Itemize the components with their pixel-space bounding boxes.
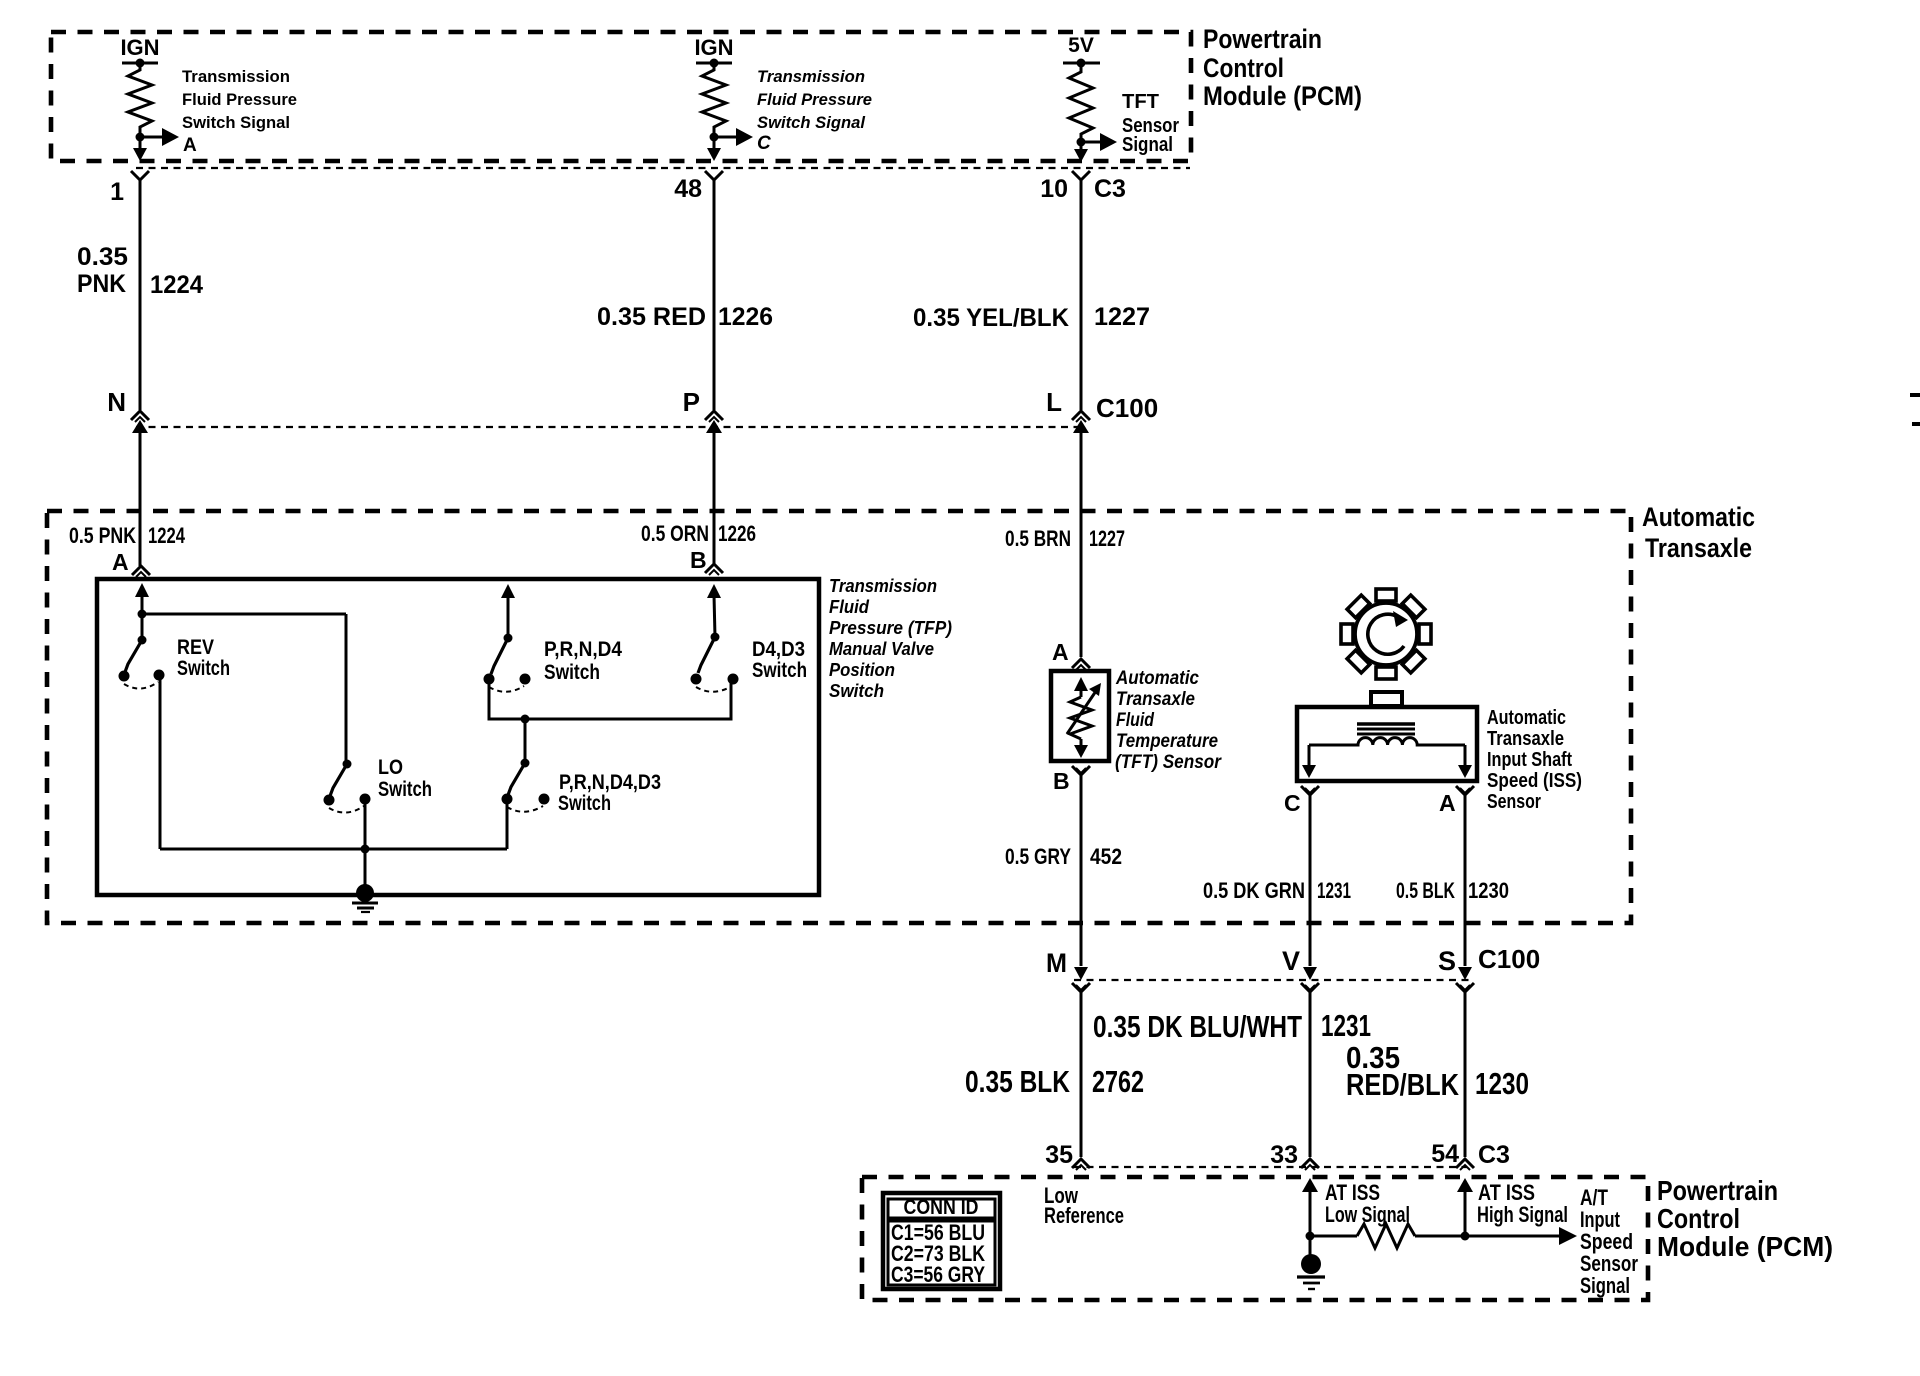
PCM bottom module box	[862, 1177, 1648, 1300]
svg-text:RED/BLK: RED/BLK	[1346, 1067, 1459, 1102]
TFT internal top arrow	[1074, 677, 1088, 697]
pin letter A (PCM internal)	[183, 135, 197, 156]
TFP manual valve position switch box	[97, 579, 819, 895]
wire TFT pull-up to connector, arrow down	[1074, 142, 1088, 162]
wire 1227 C100 L to TFT sensor A	[1080, 448, 1083, 657]
svg-text:1231: 1231	[1317, 878, 1351, 903]
svg-text:Control: Control	[1657, 1203, 1740, 1234]
connector C100 dashed interface line	[136, 426, 1081, 428]
wire resistor C to connector, arrow down	[707, 137, 721, 161]
svg-text:Module (PCM): Module (PCM)	[1657, 1231, 1833, 1262]
TFP switch label (right of box, italic)	[829, 576, 952, 701]
svg-text:1226: 1226	[718, 303, 773, 331]
svg-text:A: A	[1052, 639, 1069, 665]
ISS pickup coil winding	[1309, 738, 1465, 745]
connector C100 terminal L	[1046, 387, 1090, 448]
svg-text:Transaxle: Transaxle	[1645, 533, 1752, 563]
svg-text:0.5 ORN: 0.5 ORN	[641, 521, 709, 546]
svg-text:Switch: Switch	[829, 681, 884, 701]
label AT ISS High Signal	[1477, 1180, 1568, 1227]
connector terminal pin 1	[110, 171, 149, 206]
ISS coil lead C with down arrow	[1302, 745, 1316, 778]
svg-text:V: V	[1282, 946, 1300, 976]
svg-text:C3: C3	[1478, 1141, 1510, 1169]
svg-text:C100: C100	[1478, 944, 1540, 974]
P,R,N,D4 switch label	[544, 638, 622, 684]
label Low Reference	[1044, 1183, 1124, 1228]
svg-text:(TFT) Sensor: (TFT) Sensor	[1115, 752, 1222, 773]
PCM title top right	[1203, 24, 1362, 111]
svg-text:Manual Valve: Manual Valve	[829, 639, 934, 659]
TFT variable arrow diagonal	[1067, 683, 1101, 734]
svg-text:Signal: Signal	[1122, 134, 1173, 156]
connector C100 terminal N	[107, 387, 149, 448]
REV switch	[119, 636, 165, 689]
connector terminal B below TFT sensor	[1072, 766, 1090, 790]
wire label 0.35 RED/BLK 1230	[1346, 1040, 1529, 1102]
signal tap arrow C	[714, 128, 753, 146]
wire label 0.35 DK BLU/WHT 1231	[1093, 1008, 1371, 1044]
pin letter A at ISS	[1439, 790, 1456, 816]
REV switch pivot wire	[141, 614, 144, 640]
pin letter A at TFP	[112, 549, 129, 575]
svg-text:CONN ID: CONN ID	[904, 1196, 979, 1219]
wire PRND4D3 left contact down to rail	[506, 803, 509, 849]
svg-text:REV: REV	[177, 636, 214, 659]
svg-text:Pressure (TFP): Pressure (TFP)	[829, 618, 952, 638]
svg-text:1227: 1227	[1094, 303, 1150, 331]
wire REV contact down to rail	[159, 678, 162, 849]
wire 1227 PCM pin 10 to C100 L	[1080, 192, 1083, 410]
5V net label	[1068, 34, 1094, 57]
ground (PCM low reference)	[1297, 1254, 1325, 1289]
svg-text:A: A	[183, 135, 197, 156]
PCM top module box (Powertrain Control Module)	[51, 32, 1191, 161]
svg-text:D4,D3: D4,D3	[752, 638, 805, 661]
svg-text:Automatic: Automatic	[1642, 502, 1755, 532]
wire 1224 PCM pin 1 to C100 N	[139, 192, 142, 410]
svg-text:Automatic: Automatic	[1487, 707, 1566, 729]
resistor (TFP switch signal pull-up A)	[128, 63, 152, 137]
svg-text:33: 33	[1270, 1141, 1298, 1169]
LO switch label	[378, 756, 432, 801]
connector terminal A into TFP box	[132, 566, 150, 577]
svg-text:A: A	[112, 549, 129, 575]
svg-text:35: 35	[1045, 1141, 1073, 1169]
wire 1230 C100 S to PCM pin 54	[1464, 1006, 1467, 1157]
wire label 0.5 GRY 452	[1005, 844, 1122, 869]
IGN feed bar node (left)	[122, 59, 158, 68]
svg-text:P: P	[683, 387, 700, 417]
svg-text:P,R,N,D4,D3: P,R,N,D4,D3	[559, 771, 661, 794]
svg-text:IGN: IGN	[694, 35, 733, 60]
gear icon (input shaft)	[1341, 589, 1431, 679]
wire B entry arrow inside TFP box (D4,D3 column)	[707, 584, 721, 637]
svg-text:Transmission: Transmission	[182, 67, 290, 86]
signal tap arrow A	[140, 128, 179, 146]
svg-text:Fluid: Fluid	[1116, 710, 1154, 731]
wire label 0.5 PNK 1224	[69, 523, 186, 548]
connector C100 terminal S	[1438, 946, 1474, 1006]
svg-text:Switch: Switch	[558, 792, 611, 815]
connector C100 terminal P	[683, 387, 723, 448]
svg-text:Speed (ISS): Speed (ISS)	[1487, 770, 1582, 792]
node junction below resistor C	[710, 133, 719, 142]
svg-text:IGN: IGN	[120, 35, 159, 60]
label Transmission Fluid Pressure Switch Signal (center, italic)	[757, 67, 872, 132]
label AT ISS Low Signal	[1325, 1180, 1410, 1227]
svg-text:A: A	[1439, 790, 1456, 816]
svg-text:54: 54	[1431, 1140, 1459, 1168]
pin letter C at ISS	[1284, 790, 1301, 816]
node junction below TFT pull-up	[1077, 138, 1086, 147]
svg-text:Switch: Switch	[752, 659, 807, 682]
svg-text:LO: LO	[378, 756, 403, 779]
connector C3 dashed interface line (bottom)	[1074, 1166, 1467, 1168]
P,R,N,D4 switch	[484, 634, 531, 692]
P,R,N,D4,D3 switch	[502, 759, 550, 812]
D4,D3 switch	[691, 633, 739, 692]
wire label 0.35 BLK 2762	[965, 1064, 1144, 1099]
svg-text:Sensor: Sensor	[1487, 791, 1541, 813]
svg-text:Low Signal: Low Signal	[1325, 1202, 1410, 1227]
connector terminal pin 10 / C3	[1040, 171, 1126, 203]
svg-text:B: B	[690, 547, 707, 573]
connector terminal pin 48	[674, 171, 723, 203]
svg-text:48: 48	[674, 175, 702, 203]
svg-text:0.5 BRN: 0.5 BRN	[1005, 526, 1071, 551]
IGN feed bar node (center)	[696, 59, 732, 68]
wire junction 33 to ground	[1309, 1236, 1312, 1258]
TFT sensor box	[1051, 671, 1109, 761]
node rail ground junction	[361, 845, 370, 854]
TFT internal bottom arrow	[1074, 739, 1088, 758]
TFT thermistor resistor	[1070, 697, 1092, 739]
svg-text:452: 452	[1090, 844, 1122, 869]
svg-text:2762: 2762	[1092, 1064, 1144, 1099]
svg-text:Transaxle: Transaxle	[1116, 689, 1195, 710]
REV switch label	[177, 636, 230, 680]
wire label 0.5 BRN 1227	[1005, 526, 1125, 551]
wire branch to LO switch	[142, 614, 346, 764]
node junction 54 high	[1461, 1232, 1470, 1241]
svg-text:0.35 RED: 0.35 RED	[597, 303, 706, 331]
connector C100 terminal M	[1046, 948, 1090, 1006]
bottom rail wire	[160, 848, 507, 851]
connector terminal pin 54 / C3	[1431, 1140, 1510, 1170]
TFT sensor label (italic)	[1115, 668, 1222, 773]
wire 1224 C100 N to transaxle A	[139, 448, 142, 566]
svg-text:M: M	[1046, 948, 1067, 978]
wire LO contact down to ground	[364, 802, 367, 893]
resistor (TFP switch signal pull-up C)	[702, 63, 726, 137]
ISS sensor box	[1297, 707, 1477, 781]
wire label 0.35 PNK 1224	[77, 243, 203, 299]
svg-text:Reference: Reference	[1044, 1203, 1124, 1228]
wire pin 54 arrow into PCM	[1457, 1178, 1473, 1236]
pin letter C (PCM internal)	[757, 133, 771, 154]
wire label 0.5 BLK 1230	[1396, 878, 1509, 903]
IGN net label (center)	[694, 35, 733, 60]
wire 1226 C100 P to transaxle B	[713, 448, 716, 564]
5V feed bar node	[1063, 59, 1100, 68]
wire pin 33 arrow into PCM	[1302, 1178, 1318, 1236]
svg-text:TFT: TFT	[1122, 91, 1159, 113]
connector terminal C below ISS	[1301, 786, 1319, 810]
svg-text:C3=56 GRY: C3=56 GRY	[891, 1262, 985, 1287]
wire 452 TFT B down to C100 M	[1080, 790, 1083, 966]
svg-text:Fluid: Fluid	[829, 597, 870, 617]
label TFT Sensor Signal	[1122, 91, 1179, 156]
svg-text:0.35 BLK: 0.35 BLK	[965, 1064, 1070, 1099]
pin letter A at TFT sensor	[1052, 639, 1069, 665]
connector C3 dashed interface line (top)	[136, 167, 1190, 169]
svg-text:Transaxle: Transaxle	[1487, 728, 1564, 750]
connector terminal pin 33	[1270, 1141, 1319, 1170]
connector terminal B into TFP box	[705, 564, 723, 575]
svg-text:Control: Control	[1203, 53, 1284, 83]
svg-text:1230: 1230	[1468, 878, 1509, 903]
internal resistor (speed sensor input)	[1310, 1224, 1465, 1248]
ISS sensor mount stub	[1371, 692, 1402, 706]
wire label 0.35 YEL/BLK 1227	[913, 303, 1150, 332]
svg-text:1230: 1230	[1475, 1066, 1529, 1101]
P,R,N,D4,D3 switch label	[558, 771, 661, 815]
PCM title bottom right	[1657, 1175, 1833, 1262]
IGN net label (left)	[120, 35, 159, 60]
ground (TFP case)	[352, 884, 378, 912]
svg-text:S: S	[1438, 946, 1456, 976]
svg-text:Position: Position	[829, 660, 895, 680]
wire 1231 C100 V to PCM pin 33	[1309, 1006, 1312, 1157]
svg-text:C3: C3	[1094, 175, 1126, 203]
wire 2762 C100 M to PCM pin 35	[1080, 1006, 1083, 1157]
wire label 0.35 RED 1226	[597, 303, 773, 331]
svg-text:1224: 1224	[148, 523, 186, 548]
node junction below resistor A	[136, 133, 145, 142]
wire resistor A to connector, arrow down	[133, 137, 147, 161]
svg-text:Powertrain: Powertrain	[1203, 24, 1322, 54]
svg-text:Switch Signal: Switch Signal	[757, 113, 866, 132]
svg-text:1: 1	[110, 178, 124, 206]
svg-text:0.35: 0.35	[77, 243, 128, 271]
svg-text:C100: C100	[1096, 393, 1158, 423]
ISS sensor label	[1487, 707, 1582, 813]
svg-text:Fluid Pressure: Fluid Pressure	[182, 90, 297, 109]
connector terminal A below ISS	[1456, 786, 1474, 810]
svg-text:Temperature: Temperature	[1116, 731, 1218, 752]
connector terminal A into TFT sensor	[1072, 659, 1090, 670]
svg-text:B: B	[1053, 768, 1070, 794]
svg-text:Powertrain: Powertrain	[1657, 1175, 1778, 1206]
pin letter B at TFT sensor	[1053, 768, 1070, 794]
svg-text:Input Shaft: Input Shaft	[1487, 749, 1572, 771]
svg-text:Transmission: Transmission	[829, 576, 937, 596]
svg-text:C: C	[1284, 790, 1301, 816]
CONN ID table	[883, 1193, 1000, 1289]
connector C100 dashed interface line (bottom)	[1074, 979, 1470, 981]
wire A entry arrow inside TFP box	[135, 583, 149, 614]
connector C100 name	[1096, 393, 1158, 423]
svg-text:10: 10	[1040, 175, 1068, 203]
svg-text:0.35 YEL/BLK: 0.35 YEL/BLK	[913, 304, 1069, 332]
svg-text:0.5 BLK: 0.5 BLK	[1396, 878, 1455, 903]
wire 1230 ISS A down to C100 S	[1464, 810, 1467, 966]
wire PRND4 left contact to D4,D3 contact	[489, 683, 731, 719]
svg-text:0.5 PNK: 0.5 PNK	[69, 523, 136, 548]
svg-text:C: C	[757, 133, 771, 154]
C100 dashed line right page remnants	[1910, 393, 1920, 426]
svg-text:Signal: Signal	[1580, 1273, 1630, 1298]
wire 1231 ISS C down to C100 V	[1309, 810, 1312, 966]
wire 1226 PCM pin 48 to C100 P	[713, 192, 716, 410]
svg-text:Module (PCM): Module (PCM)	[1203, 81, 1362, 111]
svg-text:Switch Signal: Switch Signal	[182, 113, 290, 132]
wire label 0.5 ORN 1226	[641, 521, 756, 546]
wire junction down to P,R,N,D4,D3 pivot	[524, 719, 527, 763]
ISS coil lead A with down arrow	[1458, 745, 1472, 778]
connector C100 terminal V	[1282, 946, 1319, 1006]
connector terminal pin 35	[1045, 1141, 1090, 1170]
label A/T Input Speed Sensor Signal	[1580, 1185, 1638, 1298]
resistor (TFT sensor signal pull-up)	[1069, 63, 1093, 142]
svg-text:Fluid Pressure: Fluid Pressure	[757, 90, 872, 109]
svg-text:0.5 DK GRN: 0.5 DK GRN	[1203, 878, 1305, 903]
svg-text:5V: 5V	[1068, 34, 1094, 57]
Automatic Transaxle title	[1642, 502, 1755, 563]
node junction on link wire	[521, 715, 530, 724]
svg-text:Switch: Switch	[378, 778, 432, 801]
svg-text:High Signal: High Signal	[1477, 1202, 1568, 1227]
svg-text:P,R,N,D4: P,R,N,D4	[544, 638, 622, 661]
svg-text:Automatic: Automatic	[1115, 668, 1199, 689]
svg-text:L: L	[1046, 387, 1062, 417]
ISS core bars	[1357, 724, 1415, 734]
svg-text:1226: 1226	[718, 521, 756, 546]
Automatic Transaxle dashed box	[47, 511, 1631, 923]
label Transmission Fluid Pressure Switch Signal (left)	[182, 67, 297, 132]
svg-text:Transmission: Transmission	[757, 67, 865, 86]
wire label 0.5 DK GRN 1231	[1203, 878, 1351, 903]
svg-text:0.5 GRY: 0.5 GRY	[1005, 844, 1071, 869]
signal tap arrow TFT	[1081, 133, 1117, 151]
pin letter B at TFP	[690, 547, 707, 573]
svg-text:Switch: Switch	[544, 661, 600, 684]
svg-text:PNK: PNK	[77, 270, 126, 298]
wire B entry arrow inside TFP box (P,R,N,D4 column)	[501, 584, 515, 638]
svg-text:1224: 1224	[150, 271, 203, 299]
node junction 33 low	[1306, 1232, 1315, 1241]
svg-text:Switch: Switch	[177, 657, 230, 680]
svg-text:0.35 DK BLU/WHT: 0.35 DK BLU/WHT	[1093, 1009, 1302, 1044]
node junction A branch	[138, 610, 147, 619]
connector C100 name (bottom)	[1478, 944, 1540, 974]
svg-text:1227: 1227	[1089, 526, 1125, 551]
svg-text:1231: 1231	[1321, 1008, 1371, 1043]
svg-text:N: N	[107, 387, 126, 417]
internal signal arrow A/T input speed	[1465, 1227, 1577, 1245]
LO switch	[324, 760, 371, 813]
D4,D3 switch label	[752, 638, 807, 682]
